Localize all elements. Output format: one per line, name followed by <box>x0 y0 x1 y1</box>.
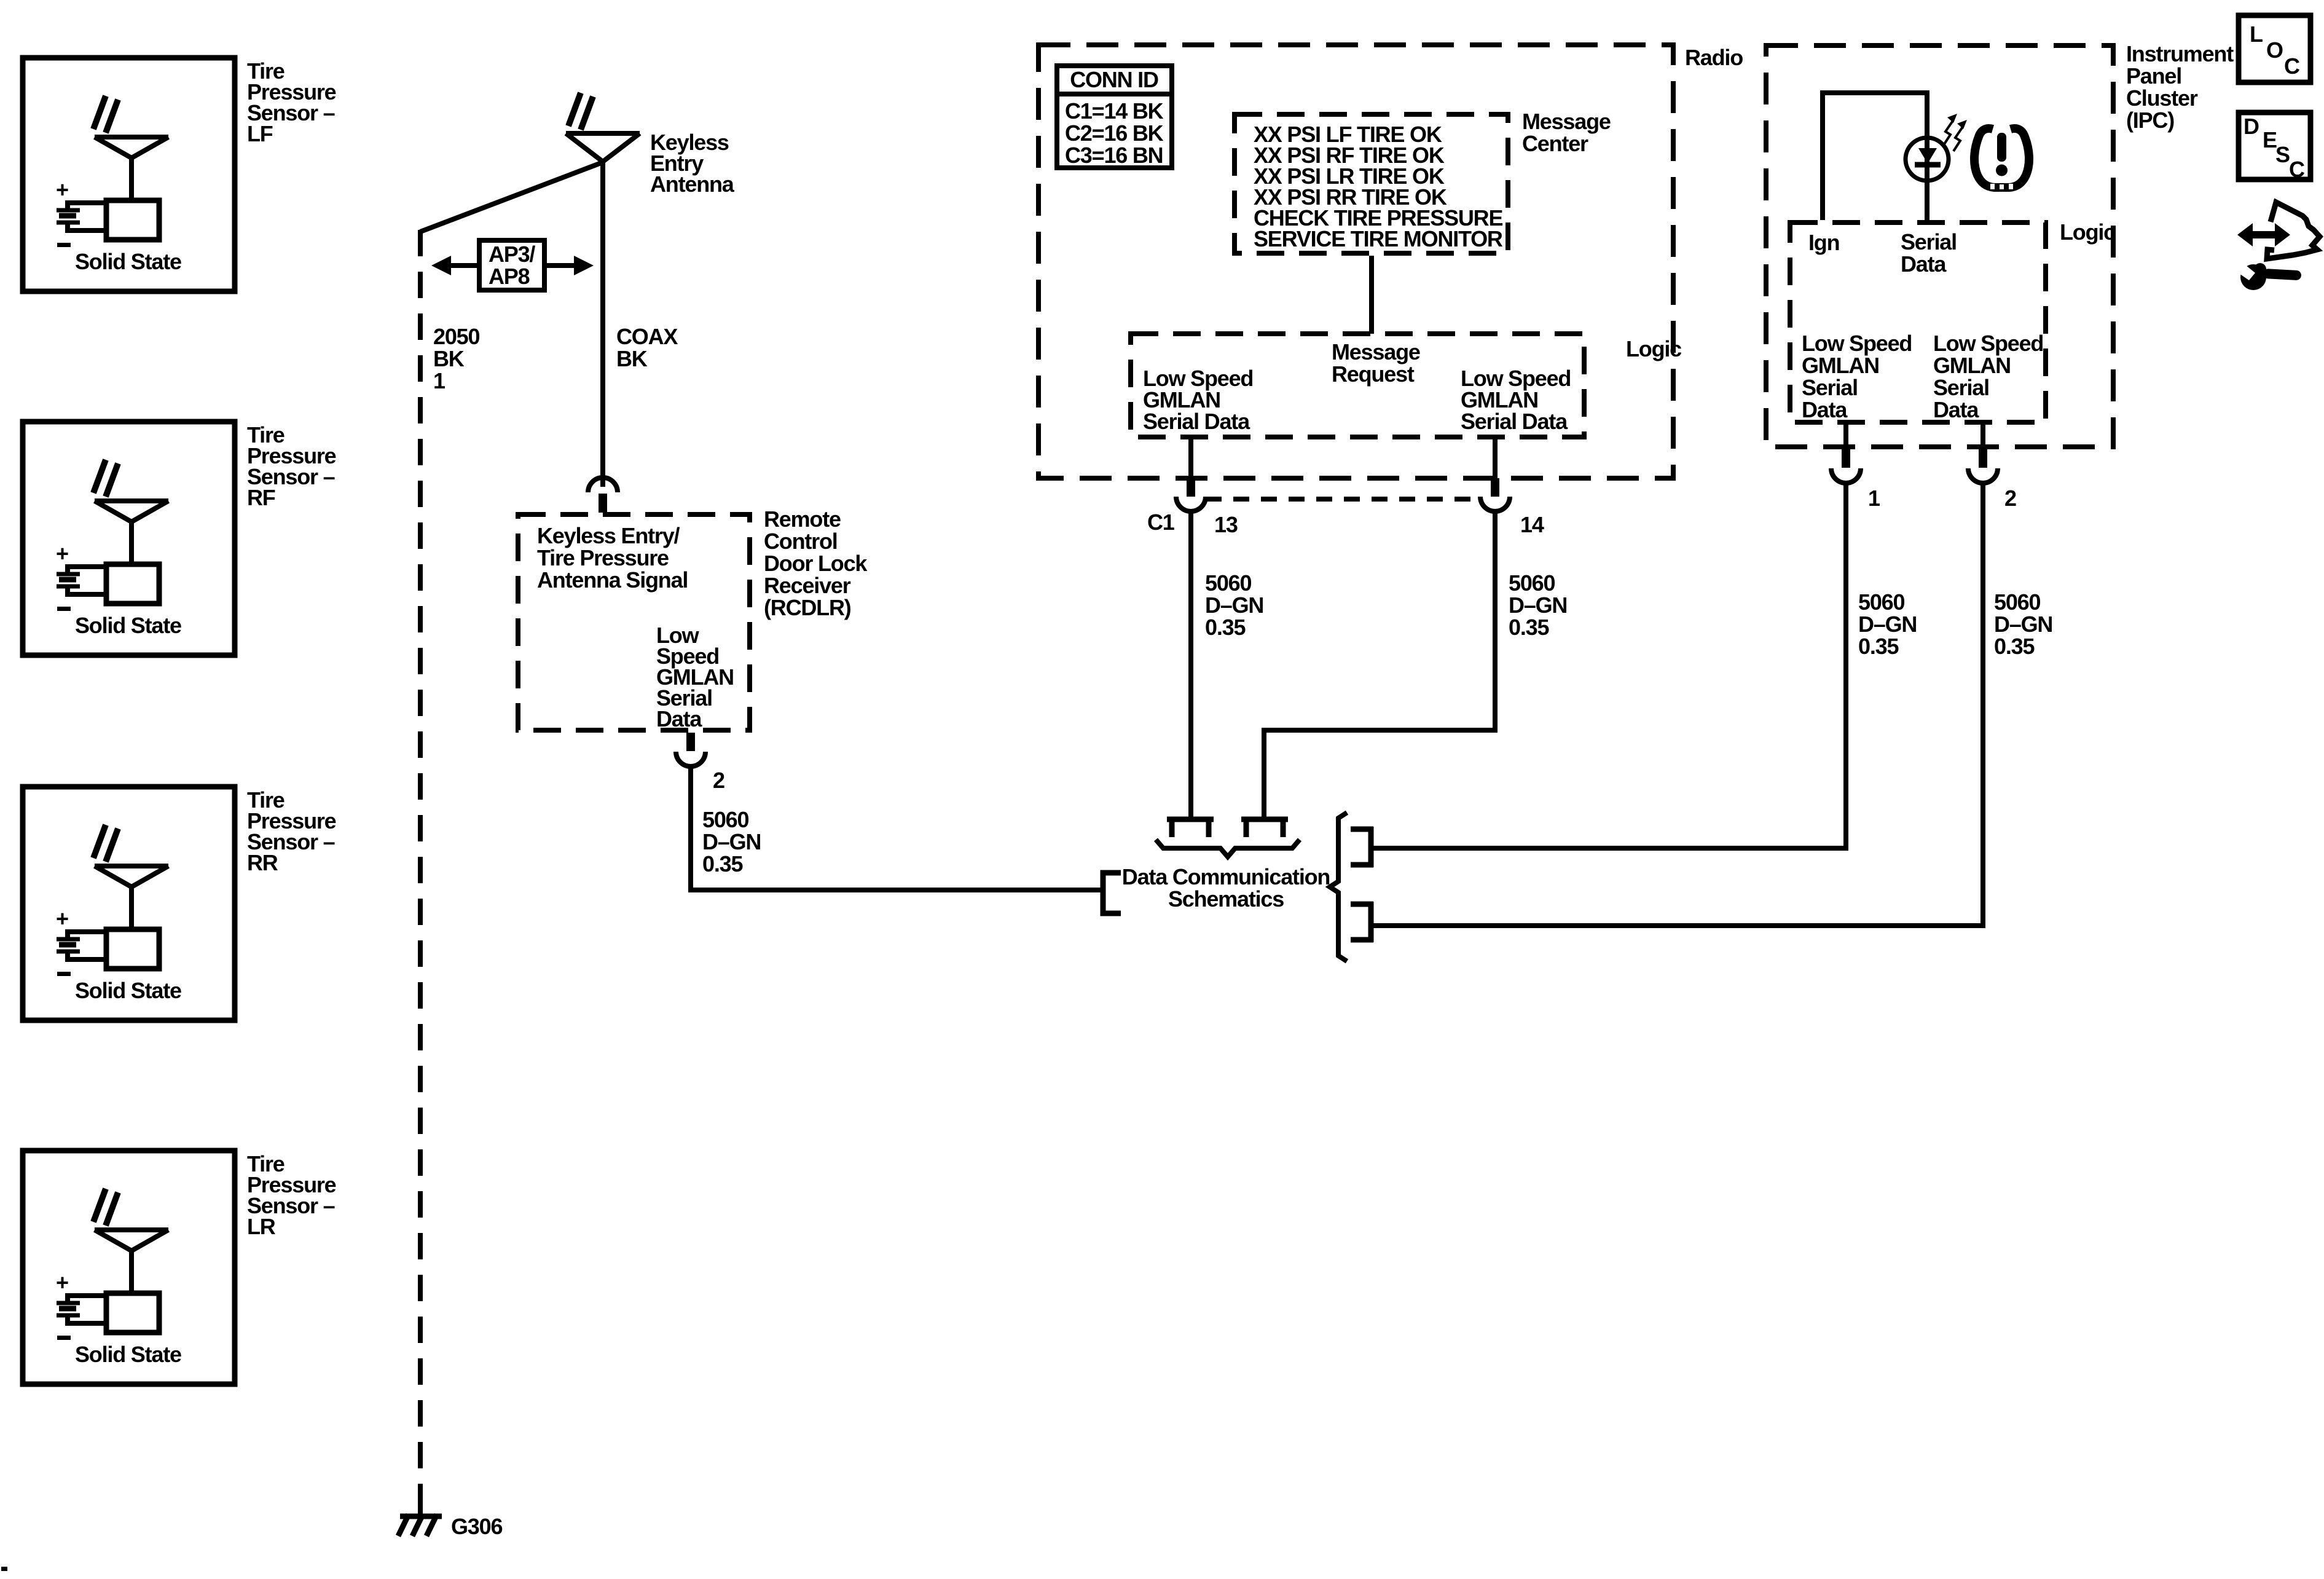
label: Message Center <box>1522 109 1611 156</box>
label inside: Low Speed GMLAN Serial Data <box>656 623 734 731</box>
svg-text:Ign: Ign <box>1808 230 1839 255</box>
brace left of IPC wires <box>1330 813 1347 961</box>
svg-text:SERVICE TIRE MONITOR: SERVICE TIRE MONITOR <box>1254 226 1503 251</box>
svg-text:C1: C1 <box>1147 510 1175 535</box>
bracket to IPC pin 2 wire <box>1351 902 1373 942</box>
svg-text:Data: Data <box>1802 397 1848 422</box>
Radio Logic dashed box <box>1131 334 1584 437</box>
svg-text:Panel: Panel <box>2126 63 2181 89</box>
tire pressure sensor LR (solid state module) <box>23 1151 235 1384</box>
tire pressure sensor RR (solid state module) <box>23 787 235 1020</box>
wire: radio logic to pin 14 <box>1493 439 1498 479</box>
svg-text:CONN ID: CONN ID <box>1070 67 1158 92</box>
connector: coax into RCDLR (arc + pin) <box>588 478 618 513</box>
svg-text:Remote: Remote <box>764 506 841 532</box>
label: Remote Control Door Lock Receiver (RCDLR) <box>764 506 868 620</box>
svg-text:Logic: Logic <box>1626 336 1681 361</box>
svg-text:Keyless Entry/: Keyless Entry/ <box>537 523 680 548</box>
svg-text:Data: Data <box>656 706 702 731</box>
wire: Ign to LED <box>1823 93 1927 220</box>
svg-text:Low Speed: Low Speed <box>1802 331 1912 356</box>
wire label 5060 D-GN 0.35 (IPC pin 1) <box>1858 589 1917 659</box>
svg-text:Low Speed: Low Speed <box>1933 331 2043 356</box>
svg-text:Schematics: Schematics <box>1168 886 1284 912</box>
svg-text:Cluster: Cluster <box>2126 85 2198 111</box>
label: Low Speed GMLAN Serial Data (radio left) <box>1143 366 1253 434</box>
label: Low Speed GMLAN Serial Data (IPC right) <box>1933 331 2043 422</box>
wire label 5060 D-GN 0.35 (pin 13) <box>1205 570 1263 640</box>
wire: shield drain 2050 BK (dashed) down to ground <box>418 230 423 1503</box>
wire: bracket to IPC pin 1 <box>1371 846 1848 851</box>
svg-text:C1=14 BK: C1=14 BK <box>1065 98 1164 124</box>
Instrument Panel Cluster dashed box <box>1766 45 2113 447</box>
splice terminal right <box>1241 819 1288 837</box>
svg-text:D–GN: D–GN <box>1858 612 1917 637</box>
svg-text:5060: 5060 <box>702 807 748 832</box>
svg-text:5060: 5060 <box>1205 570 1251 596</box>
page corner mark <box>1 1567 7 1571</box>
wire: IPC pin 2 down to bracket wire <box>1981 483 1985 928</box>
svg-text:D: D <box>2244 114 2259 139</box>
right arrow of AP3/AP8 <box>546 256 594 275</box>
svg-text:Serial Data: Serial Data <box>1143 409 1250 434</box>
svg-text:Serial Data: Serial Data <box>1461 409 1568 434</box>
svg-text:13: 13 <box>1214 512 1238 537</box>
svg-text:2: 2 <box>713 768 724 793</box>
IPC Logic dashed box <box>1790 222 2046 422</box>
ground G306 <box>398 1497 442 1536</box>
svg-text:Receiver: Receiver <box>764 573 851 598</box>
wire: message center to radio logic <box>1369 256 1374 334</box>
wire: COAX BK vertical <box>600 162 605 487</box>
svg-text:0.35: 0.35 <box>702 851 743 876</box>
CONN ID table <box>1054 66 1174 168</box>
label: Message Request <box>1332 339 1420 387</box>
label: Tire Pressure Sensor - RF <box>247 422 336 510</box>
svg-text:D–GN: D–GN <box>1509 593 1567 618</box>
svg-text:Logic: Logic <box>2060 219 2115 245</box>
svg-text:Data Communication: Data Communication <box>1122 864 1330 889</box>
svg-text:Request: Request <box>1332 361 1415 387</box>
svg-text:GMLAN: GMLAN <box>1933 353 2011 378</box>
keyless entry antenna symbol <box>566 93 640 162</box>
wire: radio logic to pin 13 <box>1188 439 1193 479</box>
svg-text:AP3/: AP3/ <box>489 242 535 267</box>
LED indicator (telltale lamp) <box>1906 138 1949 221</box>
wire: RCDLR pin 2 down and right to data-comm bracket <box>691 765 1103 890</box>
svg-text:(RCDLR): (RCDLR) <box>764 595 851 620</box>
svg-text:COAX: COAX <box>616 324 678 349</box>
svg-text:D–GN: D–GN <box>1205 593 1263 618</box>
RCDLR dashed box <box>518 514 750 730</box>
Radio dashed box <box>1038 45 1673 478</box>
svg-text:BK: BK <box>616 346 648 371</box>
svg-text:D–GN: D–GN <box>702 829 761 854</box>
TPMS warning telltale icon <box>1974 128 2029 189</box>
label: Instrument Panel Cluster (IPC) <box>2126 41 2234 133</box>
LOC nav icon box <box>2239 15 2310 82</box>
label: Tire Pressure Sensor - LR <box>247 1151 336 1239</box>
svg-text:Serial: Serial <box>1901 229 1957 254</box>
svg-text:AP8: AP8 <box>489 264 530 289</box>
svg-text:Antenna: Antenna <box>650 171 735 197</box>
wire label 5060 D-GN 0.35 (pin 14) <box>1509 570 1567 640</box>
svg-text:C: C <box>2284 53 2300 79</box>
svg-text:2050: 2050 <box>433 324 479 349</box>
svg-text:Control: Control <box>764 529 838 554</box>
svg-text:0.35: 0.35 <box>1509 615 1549 640</box>
label: Keyless Entry Antenna <box>650 130 735 197</box>
svg-text:RF: RF <box>247 485 275 510</box>
DESC nav icon box <box>2239 112 2310 182</box>
tire pressure sensor LF (solid state module) <box>23 58 235 291</box>
svg-text:5060: 5060 <box>1509 570 1555 596</box>
svg-text:LF: LF <box>247 121 273 146</box>
message center display lines <box>1254 122 1503 251</box>
label inside: Keyless Entry / Tire Pressure Antenna Signal <box>537 523 688 593</box>
svg-text:Tire Pressure: Tire Pressure <box>537 545 669 570</box>
wire: IPC logic to pin 2 <box>1981 425 1985 451</box>
wire: bracket to IPC pin 2 <box>1371 923 1985 928</box>
svg-text:2: 2 <box>2004 486 2016 511</box>
svg-text:(IPC): (IPC) <box>2126 108 2174 133</box>
svg-text:5060: 5060 <box>1858 589 1904 615</box>
tire pressure sensor RF (solid state module) <box>23 422 235 655</box>
wire: IPC logic to pin 1 <box>1843 425 1848 451</box>
svg-text:Message: Message <box>1522 109 1611 134</box>
label: Low Speed GMLAN Serial Data (radio right) <box>1461 366 1571 434</box>
label: Serial Data <box>1901 229 1957 277</box>
svg-text:D–GN: D–GN <box>1994 612 2052 637</box>
svg-text:Serial: Serial <box>1933 375 1989 400</box>
wire: IPC pin 1 down to bracket wire <box>1843 483 1848 851</box>
connector C1 pin 14 (pin + arc) <box>1480 478 1510 511</box>
connector C1 dotted line <box>1206 497 1480 502</box>
connector C1 pin 13 (pin + arc) <box>1176 478 1206 511</box>
connector IPC pin 1 (pin + arc) <box>1831 449 1861 483</box>
svg-text:GMLAN: GMLAN <box>1802 353 1879 378</box>
svg-text:Data: Data <box>1901 251 1947 277</box>
wire: pin 13 down to splice terminal <box>1188 511 1193 818</box>
wire label COAX BK <box>616 324 678 371</box>
brace under splice terminals <box>1156 840 1300 857</box>
svg-text:O: O <box>2266 37 2283 63</box>
svg-text:Data: Data <box>1933 397 1979 422</box>
label: Tire Pressure Sensor - RR <box>247 787 336 875</box>
svg-text:E: E <box>2263 127 2277 152</box>
svg-text:Antenna Signal: Antenna Signal <box>537 567 688 593</box>
connector IPC pin 2 (pin + arc) <box>1968 449 1998 483</box>
callout box AP3/AP8 <box>479 240 544 290</box>
left arrow of AP3/AP8 <box>431 256 477 275</box>
wire label 5060 D-GN 0.35 (IPC pin 2) <box>1994 589 2052 659</box>
svg-text:BK: BK <box>433 346 465 371</box>
svg-text:C3=16 BN: C3=16 BN <box>1065 143 1163 168</box>
svg-text:Serial: Serial <box>1802 375 1858 400</box>
svg-text:0.35: 0.35 <box>1205 615 1246 640</box>
label: Tire Pressure Sensor - LF <box>247 58 336 146</box>
svg-text:Radio: Radio <box>1685 45 1743 70</box>
LED emission arrows <box>1944 114 1967 151</box>
wire: diagonal from keyless antenna to shield wire <box>420 162 603 232</box>
svg-text:G306: G306 <box>451 1514 502 1539</box>
wire label 2050 BK 1 <box>433 324 479 393</box>
svg-text:1: 1 <box>433 368 446 393</box>
svg-text:L: L <box>2250 22 2263 47</box>
goes-to bracket (data communication schematics) <box>1103 873 1121 913</box>
connector: RCDLR pin 2 (pin + arc) <box>676 733 705 766</box>
vehicle navigation icon (arrow, outline, wrench) <box>2236 202 2320 290</box>
splice terminal left <box>1167 819 1214 837</box>
wire label 5060 D-GN 0.35 (RCDLR) <box>702 807 761 876</box>
svg-text:14: 14 <box>1520 512 1544 537</box>
svg-text:S: S <box>2275 142 2290 167</box>
svg-text:C: C <box>2289 157 2305 182</box>
svg-text:LR: LR <box>247 1214 276 1239</box>
svg-text:1: 1 <box>1868 486 1880 511</box>
svg-text:Instrument: Instrument <box>2126 41 2234 66</box>
Message Center dashed box <box>1235 114 1508 253</box>
svg-text:Message: Message <box>1332 339 1420 364</box>
svg-text:5060: 5060 <box>1994 589 2040 615</box>
svg-text:0.35: 0.35 <box>1994 634 2035 659</box>
svg-text:Door Lock: Door Lock <box>764 551 868 576</box>
svg-text:C2=16 BK: C2=16 BK <box>1065 120 1164 146</box>
wire: pin 14 down, jog left, down to splice terminal <box>1264 511 1495 818</box>
label: Low Speed GMLAN Serial Data (IPC left) <box>1802 331 1912 422</box>
svg-text:0.35: 0.35 <box>1858 634 1899 659</box>
bracket to IPC pin 1 wire <box>1351 827 1373 867</box>
label: Data Communication Schematics <box>1122 864 1330 912</box>
svg-text:RR: RR <box>247 850 278 875</box>
svg-text:Center: Center <box>1522 131 1588 156</box>
